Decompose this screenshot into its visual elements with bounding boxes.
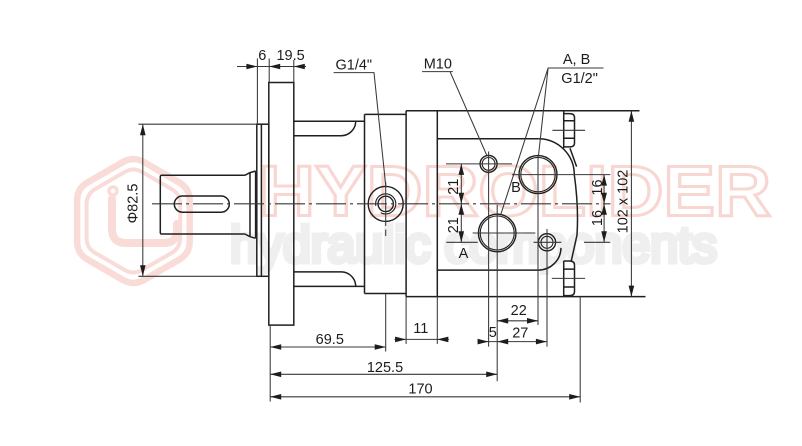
neck edge bottom with fillet xyxy=(294,272,356,287)
port B vertical extension xyxy=(537,156,539,325)
arrowheads dim 69.5 xyxy=(270,344,281,350)
A,B label underline and leaders xyxy=(501,68,604,214)
neck silhouette bottom xyxy=(294,285,365,287)
svg-text:27: 27 xyxy=(512,326,528,342)
svg-text:102 x 102: 102 x 102 xyxy=(616,170,632,234)
rear housing top-right arc xyxy=(538,139,574,175)
watermark glyph xyxy=(112,199,177,243)
watermark hexagon inner xyxy=(87,170,181,273)
dim 170 line xyxy=(270,396,580,398)
M10 hole xyxy=(480,155,497,172)
end cap left edge xyxy=(436,111,438,297)
dim 6/19.5 line xyxy=(237,66,306,68)
arrowheads dim 21/21 xyxy=(459,164,465,175)
svg-text:M10: M10 xyxy=(424,57,452,73)
svg-text:5: 5 xyxy=(489,325,497,341)
arrowheads phi82.5 xyxy=(140,124,146,135)
bottom bolt xyxy=(564,261,575,297)
flange xyxy=(269,83,294,326)
arrowheads dim 16/16 xyxy=(601,175,607,186)
M10 crosshair horizontal xyxy=(446,163,512,165)
dim 11 extensions xyxy=(406,297,437,344)
svg-text:hydraulic components: hydraulic components xyxy=(230,216,717,273)
rear face extension vertical xyxy=(579,297,581,403)
gerotor section xyxy=(365,114,407,293)
centerline xyxy=(152,203,611,205)
port A crosshair horizontal xyxy=(473,232,536,234)
M10 / dim5 vertical xyxy=(488,152,490,347)
dim 22 line xyxy=(497,320,538,322)
arrowheads dim 22 xyxy=(497,318,508,324)
svg-text:22: 22 xyxy=(511,303,527,319)
svg-text:Φ82.5: Φ82.5 xyxy=(126,184,142,224)
watermark hexagon outer xyxy=(77,159,190,283)
svg-text:16: 16 xyxy=(590,179,606,195)
dim 69.5 line xyxy=(270,346,386,348)
spigot phi82.5 xyxy=(257,124,269,276)
svg-text:G1/2": G1/2" xyxy=(561,71,598,87)
top bolt axis xyxy=(552,129,585,131)
dim 21/21 line xyxy=(460,164,462,242)
G1/4 drain port xyxy=(368,186,403,221)
svg-text:A, B: A, B xyxy=(563,52,590,68)
phi82.5 extension lines xyxy=(138,124,256,276)
svg-text:B: B xyxy=(511,180,521,196)
section line xyxy=(405,111,407,297)
dim 69.5 extensions xyxy=(270,294,386,402)
neck silhouette top xyxy=(294,120,365,122)
port B xyxy=(519,156,557,194)
svg-text:16: 16 xyxy=(590,210,606,226)
rear housing bottom xyxy=(437,269,538,271)
arrowheads dim 5/27 xyxy=(478,339,489,345)
shaft end chamfer/rings xyxy=(245,171,256,238)
svg-text:19.5: 19.5 xyxy=(276,48,304,64)
svg-text:21: 21 xyxy=(446,217,462,233)
arrowheads dim 11 xyxy=(395,337,406,343)
dim 6/19.5 extensions xyxy=(257,59,293,125)
neck edge top with fillet xyxy=(294,121,356,136)
rear bulge xyxy=(571,175,577,261)
port A xyxy=(478,214,516,252)
dim 125.5 line xyxy=(270,373,497,375)
M10 label underline and leader xyxy=(422,72,487,156)
arrowheads dim 170 xyxy=(270,394,281,400)
port A vertical extension xyxy=(496,205,498,381)
dim 5/27 line xyxy=(478,341,547,343)
end view square bottom xyxy=(406,296,645,298)
small hole crosshair horizontal xyxy=(446,241,610,243)
shaft xyxy=(160,175,245,234)
G1/4 port vertical crosshair xyxy=(385,182,387,236)
port B crosshair horizontal xyxy=(512,174,610,176)
phi82.5 dim line xyxy=(142,124,144,276)
small hole xyxy=(538,234,555,251)
small hole vertical extension xyxy=(546,229,548,347)
svg-text:A: A xyxy=(459,246,469,262)
top bolt boss slant xyxy=(570,148,577,166)
arrowheads dim 102x102 xyxy=(629,111,635,122)
arrowheads dim 125.5 xyxy=(270,372,281,378)
rear housing top xyxy=(437,138,538,140)
svg-text:11: 11 xyxy=(413,321,428,337)
svg-text:125.5: 125.5 xyxy=(367,360,403,376)
rear housing bottom corner arc xyxy=(539,248,562,270)
end view square top xyxy=(406,110,639,112)
G1/4 label underline and leader xyxy=(334,73,386,187)
top bolt xyxy=(564,111,575,148)
dim 11 line xyxy=(395,338,449,340)
bottom bolt axis xyxy=(552,277,585,279)
arrowheads dim 6/19.5 xyxy=(246,64,257,70)
svg-text:21: 21 xyxy=(446,179,462,195)
svg-text:G1/4": G1/4" xyxy=(336,58,373,74)
svg-text:170: 170 xyxy=(408,382,432,398)
svg-text:69.5: 69.5 xyxy=(316,332,344,348)
svg-text:6: 6 xyxy=(258,48,266,64)
dim 16/16 line xyxy=(603,175,605,243)
keyway xyxy=(174,196,229,212)
dim 102x102 line xyxy=(630,111,632,297)
